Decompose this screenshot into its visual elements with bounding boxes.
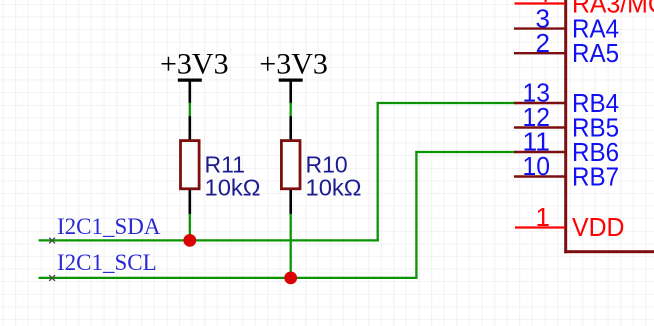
wire from +3V3 PWR2 to R10 — [290, 103, 292, 117]
wire I2C1_SDA horizontal — [39, 239, 379, 241]
svg-text:10: 10 — [523, 151, 551, 181]
pin 12 RB5 — [514, 102, 619, 142]
pin 2 RA5 — [514, 28, 619, 68]
net label I2C1_SCL — [49, 250, 156, 281]
svg-text:10kΩ: 10kΩ — [306, 174, 362, 200]
wire I2C1_SCL to pin RB6 — [415, 151, 516, 153]
resistor R11 — [181, 116, 261, 214]
svg-text:VDD: VDD — [572, 212, 625, 242]
svg-text:1: 1 — [536, 202, 550, 232]
svg-text:I2C1_SDA: I2C1_SDA — [57, 214, 161, 239]
net label I2C1_SDA — [49, 214, 161, 244]
power symbol +3V3 (PWR1) — [160, 47, 229, 103]
pin 13 RB4 — [514, 78, 619, 118]
power symbol +3V3 (PWR2) — [259, 47, 328, 103]
wire I2C1_SDA to pin RB4 — [377, 102, 517, 104]
wire R10 lower pin to SCL net — [290, 214, 292, 278]
pin 1 VDD (red highlighted power net) — [515, 202, 625, 242]
svg-text:10kΩ: 10kΩ — [205, 174, 261, 200]
svg-text:RB7: RB7 — [572, 161, 619, 191]
IC U1 body bottom edge — [564, 250, 654, 253]
wire from +3V3 PWR1 to R11 — [189, 103, 191, 117]
wire I2C1_SCL horizontal — [39, 277, 418, 279]
svg-text:2: 2 — [536, 28, 550, 58]
pin 10 RB7 — [514, 151, 619, 191]
IC U1 body left edge — [564, 0, 567, 253]
pin 3 RA4 — [514, 3, 619, 43]
pin 4 RA3/MCLR (red highlighted net) — [515, 0, 654, 18]
wire I2C1_SDA vertical riser — [377, 102, 379, 242]
svg-text:RA5: RA5 — [572, 38, 619, 68]
junction on SCL net at R10 — [284, 272, 297, 285]
junction on SDA net at R11 — [183, 234, 196, 247]
wire I2C1_SCL vertical riser — [415, 151, 417, 279]
wire R11 lower pin to SDA net — [189, 214, 191, 241]
svg-text:+3V3: +3V3 — [259, 47, 328, 80]
svg-text:+3V3: +3V3 — [160, 47, 229, 80]
pin 11 RB6 — [514, 127, 619, 167]
svg-text:I2C1_SCL: I2C1_SCL — [57, 250, 157, 275]
resistor R10 — [281, 116, 361, 214]
